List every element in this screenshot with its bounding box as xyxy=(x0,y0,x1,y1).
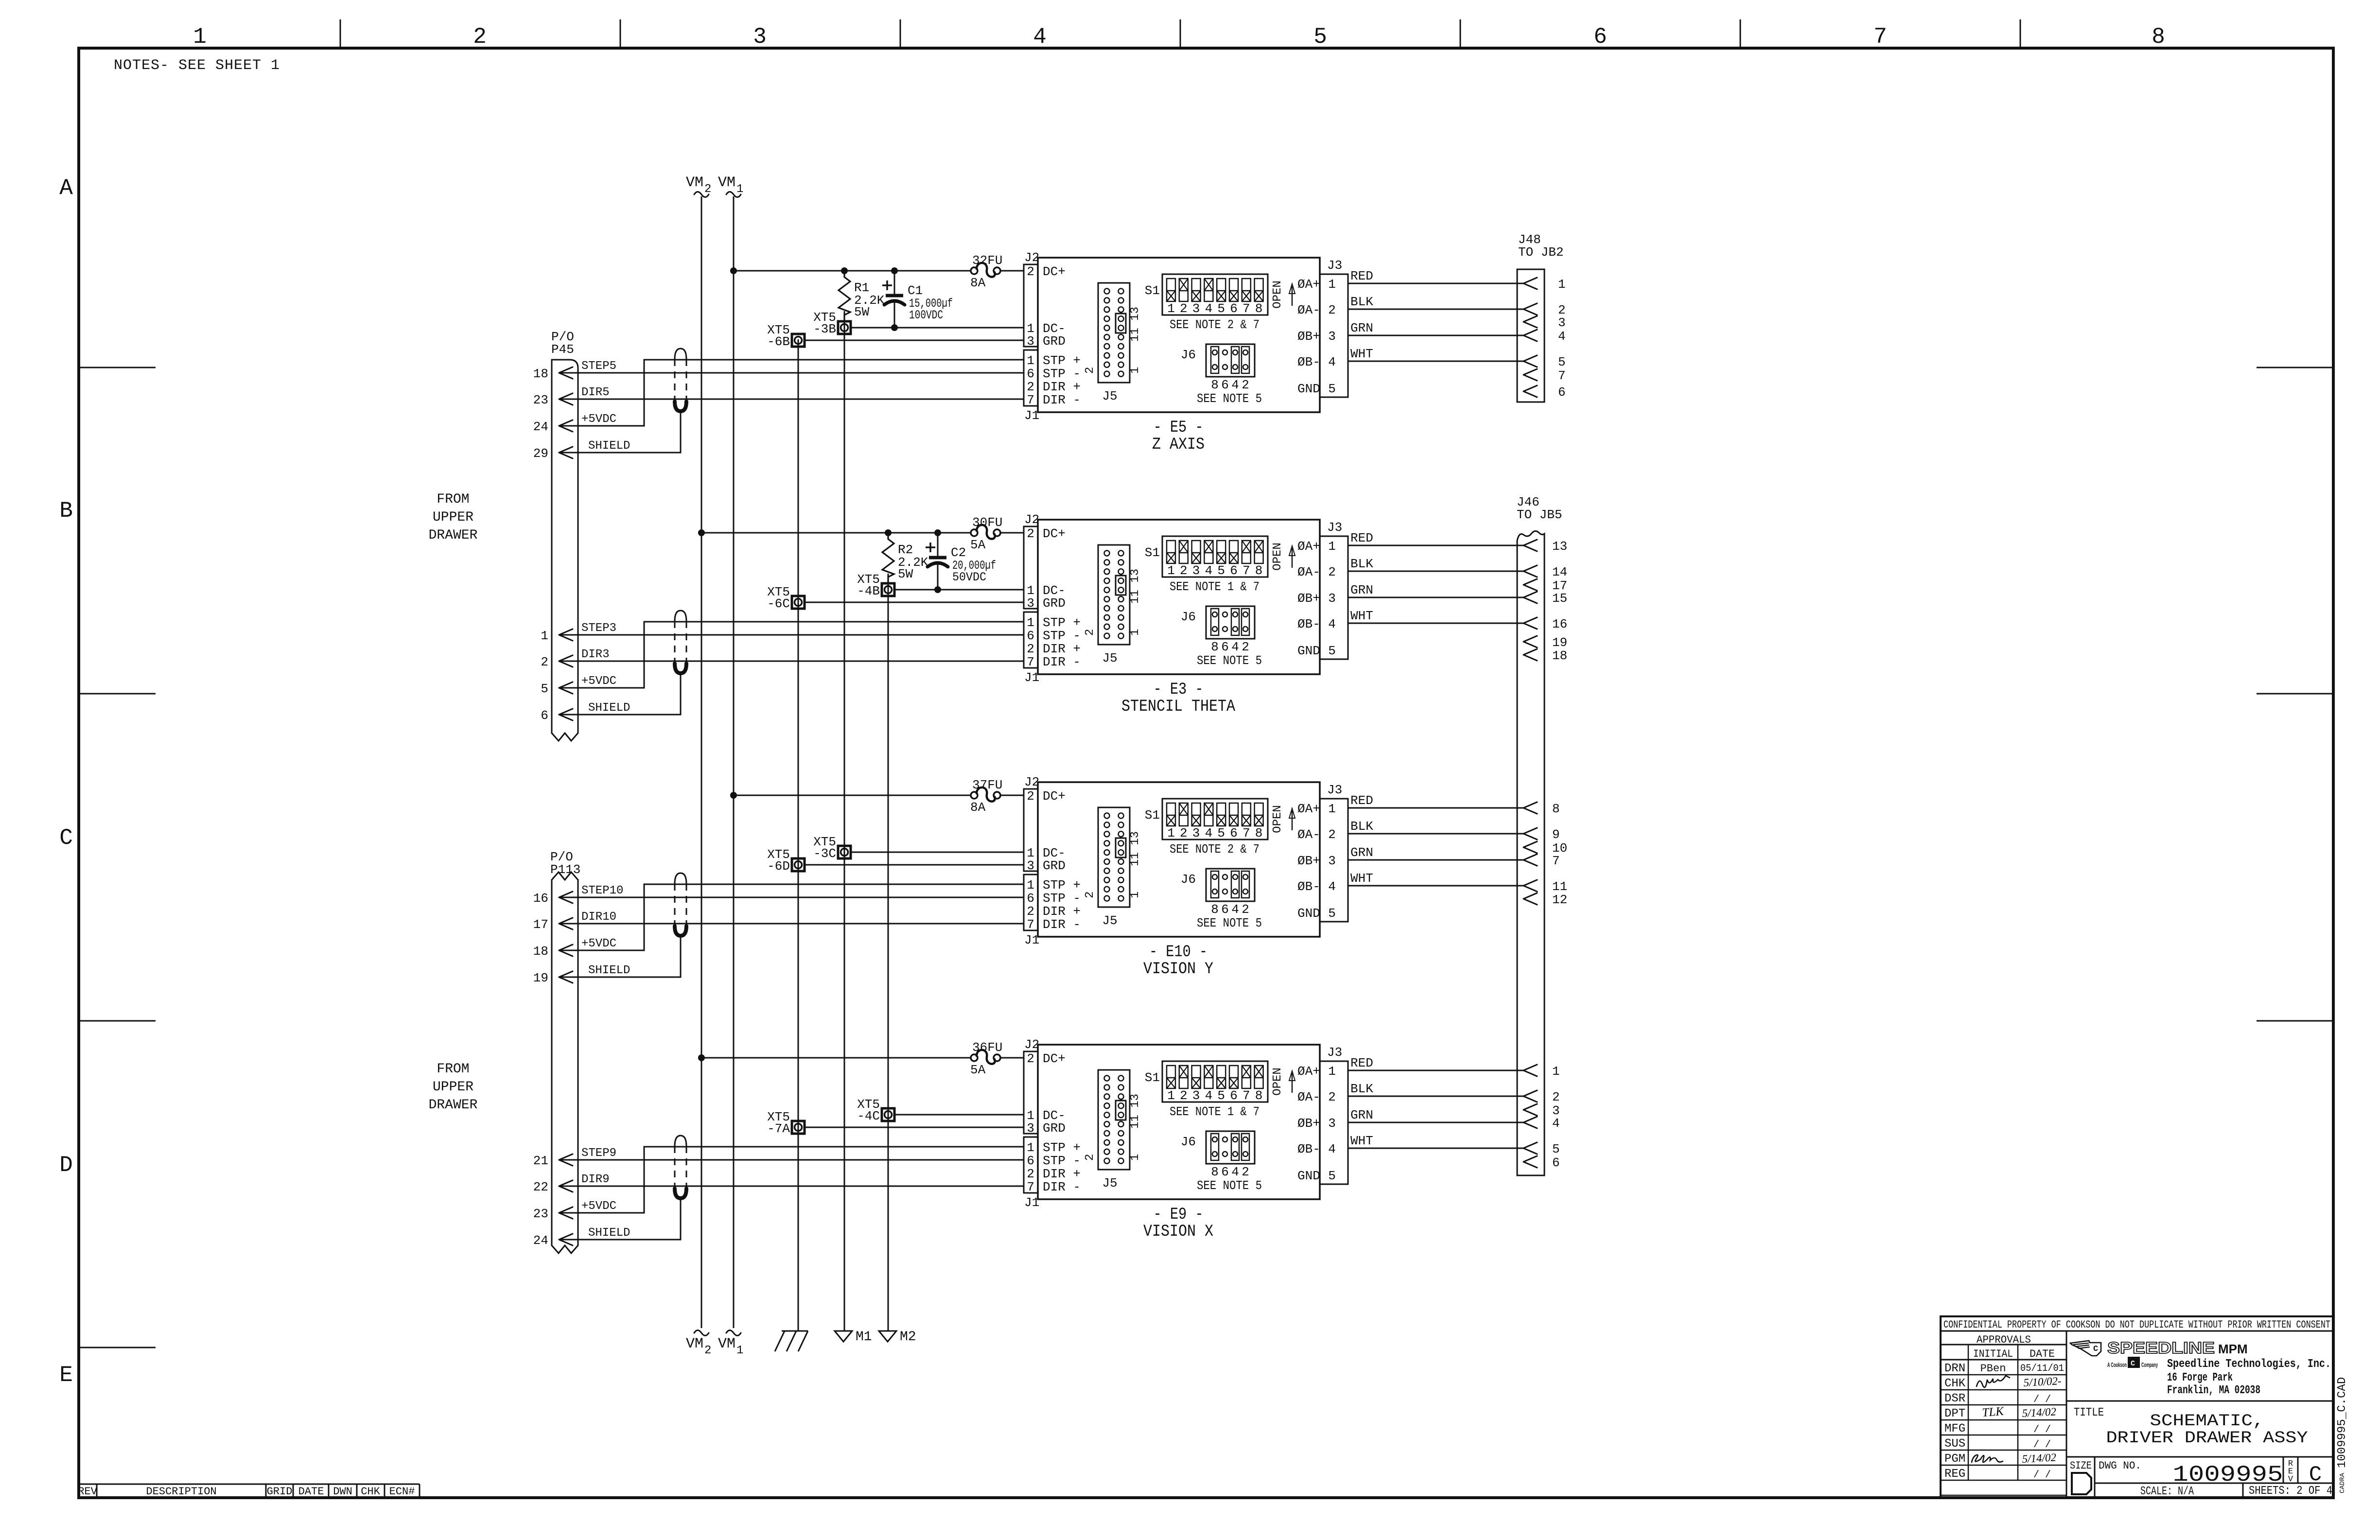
connector J2 E10 xyxy=(1024,775,1039,873)
svg-text:UPPER: UPPER xyxy=(433,510,473,525)
svg-text:1: 1 xyxy=(1129,367,1142,374)
wire DC+ feed E5 from VM bus xyxy=(730,267,971,274)
connector J2 E5 xyxy=(1024,250,1039,349)
svg-text:ØB+: ØB+ xyxy=(1297,1116,1320,1131)
pin P113.16 STEP10 xyxy=(533,884,624,906)
svg-text:GRD: GRD xyxy=(1043,334,1066,349)
pin J46.17 xyxy=(1523,578,1567,593)
svg-text:DRAWER: DRAWER xyxy=(429,1098,478,1113)
svg-text:4: 4 xyxy=(1205,1088,1213,1103)
svg-text:WHT: WHT xyxy=(1350,347,1373,361)
svg-text:VM: VM xyxy=(686,1336,703,1352)
svg-text:-6B: -6B xyxy=(767,334,790,349)
svg-text:ØA+: ØA+ xyxy=(1297,802,1320,816)
terminal XT5 -4B xyxy=(857,572,894,598)
svg-text:1: 1 xyxy=(1027,1140,1034,1155)
module E10 (VISION Y) outline box xyxy=(1038,782,1320,937)
svg-text:6: 6 xyxy=(1221,378,1229,392)
svg-text:21: 21 xyxy=(533,1154,548,1168)
node VM1 (top) xyxy=(718,175,743,197)
pin labels phase outputs E9 xyxy=(1297,1064,1320,1183)
wire RED E3 xyxy=(1348,531,1523,545)
svg-text:4: 4 xyxy=(1231,1165,1239,1179)
net M1 (DC-) vertical bus wire xyxy=(844,311,845,1331)
pin J46.8 xyxy=(1523,802,1560,816)
svg-text:3: 3 xyxy=(1027,1121,1034,1136)
svg-text:S1: S1 xyxy=(1145,545,1160,560)
fuse 37FU 8A xyxy=(970,778,1002,815)
svg-text:5: 5 xyxy=(1217,1088,1225,1103)
svg-text:DIR -: DIR - xyxy=(1043,1180,1081,1194)
label E3 title xyxy=(1121,681,1236,716)
svg-text:2: 2 xyxy=(704,183,711,196)
pin labels J2/J1 E10 xyxy=(1043,789,1081,932)
svg-text:VM: VM xyxy=(686,175,703,191)
wire GRN E10 xyxy=(1348,845,1523,860)
svg-text:23: 23 xyxy=(533,1207,548,1221)
svg-text:1: 1 xyxy=(1027,615,1034,630)
svg-text:5: 5 xyxy=(1328,382,1336,396)
svg-text:5W: 5W xyxy=(854,305,870,319)
wire WHT E10 xyxy=(1348,871,1523,886)
connector P113 (P/O) xyxy=(550,850,580,1253)
svg-text:19: 19 xyxy=(533,971,548,985)
svg-text:RED: RED xyxy=(1350,1056,1373,1070)
svg-text:100VDC: 100VDC xyxy=(909,308,943,322)
svg-text:DRIVER DRAWER ASSY: DRIVER DRAWER ASSY xyxy=(2106,1429,2308,1448)
node VM2 (bottom) xyxy=(686,1330,711,1358)
svg-text:Company: Company xyxy=(2141,1361,2158,1368)
svg-text:SHIELD: SHIELD xyxy=(588,439,630,453)
svg-text:REV: REV xyxy=(78,1486,97,1498)
svg-text:J5: J5 xyxy=(1102,651,1117,665)
svg-text:19: 19 xyxy=(1552,635,1567,650)
CAD file reference (rotated) xyxy=(2336,1377,2349,1493)
svg-text:OPEN: OPEN xyxy=(1271,542,1284,571)
svg-text:2: 2 xyxy=(1328,303,1336,317)
svg-text:-6C: -6C xyxy=(767,596,790,611)
svg-text:STEP3: STEP3 xyxy=(581,622,616,635)
wire DIR- (DIR signal) E3 xyxy=(559,661,1024,662)
svg-text:DSR: DSR xyxy=(1944,1392,1965,1405)
node VM2 (top) xyxy=(686,175,711,197)
svg-text:DIR3: DIR3 xyxy=(581,648,610,661)
svg-text:7: 7 xyxy=(1027,1180,1034,1194)
svg-text:GRD: GRD xyxy=(1043,858,1066,873)
svg-text:2: 2 xyxy=(1242,902,1249,917)
pin J46.14 xyxy=(1523,565,1567,579)
svg-text:4: 4 xyxy=(1231,640,1239,654)
cable shield symbol E10 xyxy=(675,873,686,936)
svg-text:24: 24 xyxy=(533,1233,548,1248)
svg-text:2: 2 xyxy=(704,1344,711,1357)
svg-text:3: 3 xyxy=(1192,301,1200,316)
svg-text:MFG: MFG xyxy=(1944,1422,1965,1435)
svg-text:J1: J1 xyxy=(1024,933,1039,947)
svg-text:STP -: STP - xyxy=(1043,367,1081,381)
svg-text:2: 2 xyxy=(1328,565,1336,579)
svg-text:4: 4 xyxy=(1328,355,1336,369)
svg-text:REG: REG xyxy=(1944,1468,1965,1481)
svg-text:7: 7 xyxy=(1242,826,1250,840)
svg-text:18: 18 xyxy=(533,944,548,959)
svg-text:SUS: SUS xyxy=(1944,1437,1965,1451)
terminal XT5 -3B xyxy=(813,310,851,336)
svg-text:-3C: -3C xyxy=(813,846,836,861)
pin P113.22 DIR9 xyxy=(533,1173,610,1194)
svg-text:INITIAL: INITIAL xyxy=(1973,1348,2013,1360)
svg-text:12: 12 xyxy=(1552,892,1567,907)
svg-text:ØA-: ØA- xyxy=(1297,303,1320,317)
svg-text:6: 6 xyxy=(541,708,548,723)
svg-text:3: 3 xyxy=(1027,334,1034,349)
pin J48.4 xyxy=(1523,329,1566,344)
svg-text:GND: GND xyxy=(1297,382,1320,396)
module E9 (VISION X) outline box xyxy=(1038,1045,1320,1199)
svg-text:1: 1 xyxy=(736,1344,743,1357)
svg-text:1: 1 xyxy=(1328,277,1336,292)
svg-text:1009995_C.CAD: 1009995_C.CAD xyxy=(2336,1377,2349,1468)
svg-text:DATE: DATE xyxy=(2030,1348,2055,1360)
svg-text:2: 2 xyxy=(1027,264,1034,279)
svg-text:RED: RED xyxy=(1350,793,1373,808)
svg-text:STP +: STP + xyxy=(1043,878,1081,892)
wire fuse to J2.2 E5 xyxy=(1000,270,1024,272)
svg-text:7: 7 xyxy=(1242,1088,1250,1103)
net M2 (DC-) vertical bus wire xyxy=(888,574,889,1331)
pin J46.13 xyxy=(1523,539,1567,554)
svg-text:2: 2 xyxy=(1180,563,1188,578)
svg-text:DIR -: DIR - xyxy=(1043,917,1081,932)
svg-text:8: 8 xyxy=(2152,24,2165,50)
svg-text:PGM: PGM xyxy=(1944,1452,1965,1466)
svg-text:3: 3 xyxy=(1328,854,1336,868)
svg-text:- E5 -: - E5 - xyxy=(1154,419,1204,437)
svg-text:ØA+: ØA+ xyxy=(1297,539,1320,554)
svg-text:SEE NOTE 2 & 7: SEE NOTE 2 & 7 xyxy=(1170,317,1260,332)
svg-text:7: 7 xyxy=(1027,917,1034,932)
svg-text:1: 1 xyxy=(1167,301,1175,316)
svg-text:ØA-: ØA- xyxy=(1297,565,1320,579)
svg-text:J1: J1 xyxy=(1024,670,1039,685)
pin J46.19 xyxy=(1523,635,1567,650)
svg-text:A Cookson: A Cookson xyxy=(2107,1361,2127,1368)
wire DC- from XT5-4C to J2.1 E9 xyxy=(894,1114,1024,1116)
svg-text:6: 6 xyxy=(1027,891,1034,906)
svg-text:5: 5 xyxy=(1552,1142,1560,1156)
svg-text:7: 7 xyxy=(1558,368,1566,383)
svg-text:STENCIL THETA: STENCIL THETA xyxy=(1121,698,1236,716)
wire BLK E5 xyxy=(1348,295,1523,309)
svg-text:2: 2 xyxy=(1027,904,1034,919)
connector J3 E10 xyxy=(1320,783,1348,922)
jumper block J6 E9 xyxy=(1181,1131,1262,1193)
svg-text:6: 6 xyxy=(1593,24,1607,50)
svg-text:2: 2 xyxy=(1084,1154,1097,1161)
svg-text:6: 6 xyxy=(1221,640,1229,654)
pin J48.5 xyxy=(1523,355,1566,369)
svg-text:17: 17 xyxy=(533,917,548,932)
svg-text:18: 18 xyxy=(533,367,548,381)
svg-text:1: 1 xyxy=(1027,878,1034,892)
svg-text:5: 5 xyxy=(1328,1169,1336,1183)
wire BLK E10 xyxy=(1348,819,1523,834)
svg-text:8: 8 xyxy=(1255,563,1263,578)
pin J46.7 xyxy=(1523,854,1560,868)
svg-text:DESCRIPTION: DESCRIPTION xyxy=(146,1486,216,1498)
svg-text:SHIELD: SHIELD xyxy=(588,1226,630,1240)
svg-text:2: 2 xyxy=(541,655,548,669)
svg-text:-6D: -6D xyxy=(767,859,790,874)
svg-text:DIR5: DIR5 xyxy=(581,386,610,399)
jumper block J6 E5 xyxy=(1181,344,1262,406)
pin P113.17 DIR10 xyxy=(533,910,616,932)
svg-text:8A: 8A xyxy=(970,800,986,815)
svg-text:SHIELD: SHIELD xyxy=(588,964,630,977)
svg-text:+5VDC: +5VDC xyxy=(581,1200,616,1213)
pin P45.29 SHIELD xyxy=(533,439,630,461)
svg-text:7: 7 xyxy=(1027,655,1034,669)
svg-text:7: 7 xyxy=(1242,301,1250,316)
DIP switch S1 E5 xyxy=(1145,274,1268,316)
svg-text:J3: J3 xyxy=(1327,1045,1342,1060)
svg-text:SEE NOTE 2 & 7: SEE NOTE 2 & 7 xyxy=(1170,842,1260,857)
svg-text:STP -: STP - xyxy=(1043,629,1081,643)
connector J5 E3 xyxy=(1084,545,1142,665)
svg-text:6: 6 xyxy=(1027,1154,1034,1168)
svg-text:2: 2 xyxy=(1552,1090,1560,1104)
svg-text:13: 13 xyxy=(1552,539,1567,554)
svg-text:GRD: GRD xyxy=(1043,1121,1066,1136)
svg-text:/ /: / / xyxy=(2033,1424,2051,1435)
svg-text:3: 3 xyxy=(1558,315,1566,330)
svg-text:3: 3 xyxy=(1192,563,1200,578)
svg-text:J2: J2 xyxy=(1024,512,1039,527)
svg-text:1: 1 xyxy=(541,629,548,643)
svg-text:05/11/01: 05/11/01 xyxy=(2020,1363,2064,1374)
wire BLK E9 xyxy=(1348,1082,1523,1096)
wire DC- from XT5-4B to J2.1 E3 xyxy=(894,589,1024,591)
pin P45.2 DIR3 xyxy=(541,648,609,669)
wire DIR- (DIR signal) E5 xyxy=(559,399,1024,400)
svg-text:8: 8 xyxy=(1211,902,1219,917)
svg-text:5A: 5A xyxy=(970,538,986,552)
svg-text:2: 2 xyxy=(1084,629,1097,636)
svg-text:C: C xyxy=(2093,1345,2098,1354)
svg-text:4: 4 xyxy=(1231,902,1239,917)
svg-text:18: 18 xyxy=(1552,648,1567,663)
svg-text:ØB-: ØB- xyxy=(1297,617,1320,631)
svg-text:DIR +: DIR + xyxy=(1043,904,1081,919)
connector J3 E5 xyxy=(1320,258,1348,397)
jumper block J6 E3 xyxy=(1181,606,1262,668)
svg-text:2: 2 xyxy=(1027,642,1034,656)
svg-text:+5VDC: +5VDC xyxy=(581,937,616,950)
svg-text:1: 1 xyxy=(736,183,743,196)
svg-text:VM: VM xyxy=(718,1336,735,1352)
svg-text:5: 5 xyxy=(541,682,548,696)
svg-text:DIR +: DIR + xyxy=(1043,380,1081,394)
svg-text:8: 8 xyxy=(1552,802,1560,816)
svg-text:6: 6 xyxy=(1230,1088,1238,1103)
svg-text:24: 24 xyxy=(533,420,548,434)
svg-text:WHT: WHT xyxy=(1350,871,1373,886)
DIP switch S1 E10 xyxy=(1145,799,1268,840)
size D / DWG NO. 1009995 / REV C xyxy=(2070,1457,2333,1498)
svg-text:GND: GND xyxy=(1297,906,1320,921)
svg-text:1: 1 xyxy=(1129,1154,1142,1161)
svg-text:SCHEMATIC,: SCHEMATIC, xyxy=(2150,1412,2264,1431)
svg-text:11 13: 11 13 xyxy=(1129,307,1142,342)
svg-text:S1: S1 xyxy=(1145,1070,1160,1085)
svg-text:2: 2 xyxy=(1180,1088,1188,1103)
svg-text:5: 5 xyxy=(1328,906,1336,921)
svg-text:1: 1 xyxy=(1328,1064,1336,1079)
svg-text:J1: J1 xyxy=(1024,1195,1039,1210)
revision strip xyxy=(78,1484,420,1498)
svg-text:ØB+: ØB+ xyxy=(1297,329,1320,344)
svg-text:GRN: GRN xyxy=(1350,583,1373,597)
pin J46.2 xyxy=(1523,1090,1560,1104)
cable shield symbol E9 xyxy=(675,1136,686,1198)
svg-text:5A: 5A xyxy=(970,1063,986,1077)
ground M2 (triangle) xyxy=(879,1330,916,1345)
svg-text:Z AXIS: Z AXIS xyxy=(1152,436,1205,454)
svg-text:DIR +: DIR + xyxy=(1043,642,1081,656)
svg-text:M2: M2 xyxy=(900,1330,916,1345)
svg-text:6: 6 xyxy=(1027,367,1034,381)
svg-text:SEE NOTE 5: SEE NOTE 5 xyxy=(1197,391,1262,406)
svg-text:FROM: FROM xyxy=(437,1062,469,1077)
svg-text:2: 2 xyxy=(1084,892,1097,898)
svg-text:2: 2 xyxy=(1180,826,1188,840)
label OPEN + arrow E10 xyxy=(1271,805,1295,833)
capacitor C1 15,000µf 100VDC (polarized) xyxy=(882,267,953,331)
svg-text:E: E xyxy=(59,1363,73,1388)
svg-text:J6: J6 xyxy=(1181,348,1196,362)
svg-text:OPEN: OPEN xyxy=(1271,1067,1284,1096)
connector J5 E10 xyxy=(1084,807,1142,928)
svg-text:DIR +: DIR + xyxy=(1043,1167,1081,1181)
pin J46.6 xyxy=(1523,1155,1560,1170)
wire STP- (STEP signal) E10 xyxy=(559,897,1024,898)
svg-text:36FU: 36FU xyxy=(972,1040,1002,1055)
svg-text:11 13: 11 13 xyxy=(1129,1094,1142,1129)
svg-text:1: 1 xyxy=(193,24,207,50)
svg-text:50VDC: 50VDC xyxy=(952,570,986,584)
svg-text:2: 2 xyxy=(1180,301,1188,316)
wire fuse to J2.2 E3 xyxy=(1000,532,1024,534)
wire GRD from XT5-7A to J2.3 E9 xyxy=(805,1127,1024,1128)
pin J46.18 xyxy=(1523,648,1567,663)
svg-text:GRD: GRD xyxy=(1043,596,1066,611)
svg-text:2: 2 xyxy=(1027,380,1034,394)
ground (chassis) xyxy=(775,1331,808,1351)
connector J3 E3 xyxy=(1320,520,1348,659)
svg-text:C2: C2 xyxy=(951,545,966,560)
pin J46.10 xyxy=(1523,841,1567,856)
wire DC- from XT5-3B to J2.1 E5 xyxy=(851,327,1024,329)
svg-text:STEP10: STEP10 xyxy=(581,884,623,897)
svg-text:5: 5 xyxy=(1313,24,1327,50)
terminal XT5 -7A xyxy=(767,1110,805,1136)
connector J5 E9 xyxy=(1084,1070,1142,1190)
wire SHIELD E10 xyxy=(559,936,681,977)
pin J46.9 xyxy=(1523,827,1560,842)
svg-text:3: 3 xyxy=(753,24,767,50)
wire RED E5 xyxy=(1348,269,1523,283)
pin P45.24 +5VDC xyxy=(533,413,616,434)
svg-text:J6: J6 xyxy=(1181,610,1196,624)
svg-text:GRN: GRN xyxy=(1350,321,1373,335)
svg-text:DWG NO.: DWG NO. xyxy=(2099,1460,2141,1472)
wire DIR- (DIR signal) E10 xyxy=(559,923,1024,925)
svg-text:J5: J5 xyxy=(1102,1176,1117,1190)
svg-text:STP +: STP + xyxy=(1043,615,1081,630)
label FROM UPPER DRAWER (P45) xyxy=(429,492,478,543)
svg-text:16: 16 xyxy=(533,891,548,906)
svg-text:2: 2 xyxy=(1027,1167,1034,1181)
wire STP- (STEP signal) E3 xyxy=(559,634,1024,636)
svg-text:- E10 -: - E10 - xyxy=(1149,943,1207,962)
svg-text:3: 3 xyxy=(1328,591,1336,606)
wire DC+ feed E3 from VM bus xyxy=(698,529,971,536)
pin P45.6 SHIELD xyxy=(541,701,630,723)
svg-text:VISION Y: VISION Y xyxy=(1143,960,1213,979)
connector J1 E9 xyxy=(1024,1137,1039,1210)
svg-text:DIR9: DIR9 xyxy=(581,1173,610,1186)
svg-text:3: 3 xyxy=(1192,826,1200,840)
fuse 36FU 5A xyxy=(970,1040,1002,1077)
wire WHT E3 xyxy=(1348,609,1523,623)
drawing title xyxy=(2066,1406,2333,1457)
pin P113.18 +5VDC xyxy=(533,937,616,959)
svg-text:8A: 8A xyxy=(970,276,986,290)
svg-text:8: 8 xyxy=(1211,378,1219,392)
connector J1 E3 xyxy=(1024,612,1039,685)
svg-text:23: 23 xyxy=(533,393,548,407)
svg-text:J5: J5 xyxy=(1102,389,1117,403)
svg-text:DC+: DC+ xyxy=(1043,789,1066,804)
svg-text:6: 6 xyxy=(1221,902,1229,917)
svg-text:2: 2 xyxy=(1027,789,1034,804)
net GND chassis bus wire xyxy=(798,339,799,1331)
svg-text:P113: P113 xyxy=(550,862,580,877)
fuse 32FU 8A xyxy=(970,253,1002,290)
svg-text:OPEN: OPEN xyxy=(1271,280,1284,309)
svg-text:-4B: -4B xyxy=(857,584,880,598)
wire GRD from XT5-6D to J2.3 E10 xyxy=(805,864,1024,866)
svg-text:SIZE: SIZE xyxy=(2070,1460,2092,1472)
svg-text:CADRA: CADRA xyxy=(2339,1472,2346,1493)
svg-text:2: 2 xyxy=(1242,1165,1249,1179)
pin P113.19 SHIELD xyxy=(533,964,630,985)
svg-text:SHEETS: 2 OF 4: SHEETS: 2 OF 4 xyxy=(2249,1485,2332,1498)
svg-text:5: 5 xyxy=(1217,301,1225,316)
svg-text:7: 7 xyxy=(1027,393,1034,407)
wire SHIELD E3 xyxy=(559,673,681,715)
svg-text:SPEEDLINE: SPEEDLINE xyxy=(2107,1339,2215,1357)
svg-text:5: 5 xyxy=(1217,826,1225,840)
svg-text:ECN#: ECN# xyxy=(389,1486,415,1498)
svg-text:5/10/02-: 5/10/02- xyxy=(2023,1375,2062,1389)
svg-text:5: 5 xyxy=(1558,355,1566,369)
svg-text:RED: RED xyxy=(1350,269,1373,283)
svg-text:1: 1 xyxy=(1167,1088,1175,1103)
svg-text:4: 4 xyxy=(1558,329,1566,344)
wire GRN E5 xyxy=(1348,321,1523,335)
svg-text:BLK: BLK xyxy=(1350,819,1373,834)
